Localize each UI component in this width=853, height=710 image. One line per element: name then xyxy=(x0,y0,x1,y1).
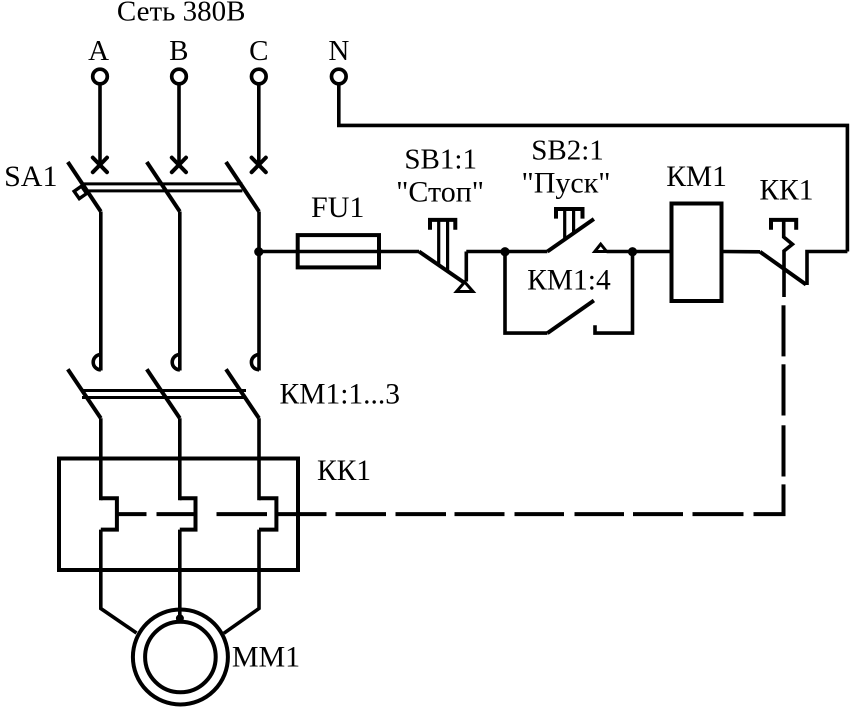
motor MM1 inner circle xyxy=(145,622,216,693)
svg-text:В: В xyxy=(169,35,188,67)
KM1:4 branch right wire xyxy=(595,252,633,334)
svg-text:SA1: SA1 xyxy=(4,160,57,193)
SA1 blade phase B xyxy=(147,162,180,212)
svg-text:A: A xyxy=(88,35,109,67)
node junction 2 xyxy=(628,247,637,256)
KM1:1 blade xyxy=(68,369,101,418)
wire B terminal to SA1 xyxy=(177,84,181,167)
wire SA1-A to KM1 contact xyxy=(99,212,103,371)
pushbutton SB1 actuator xyxy=(430,220,455,230)
SA1 fixed contact X phase A xyxy=(93,158,107,173)
terminal N xyxy=(332,69,347,84)
pushbutton SB1 blade (NC) xyxy=(419,252,465,284)
wire SA1-C to KM1 contact xyxy=(257,252,261,371)
SA1 blade phase A xyxy=(68,162,101,212)
fuse FU1 xyxy=(298,235,379,267)
mechanical link dashed (heaters to KK1 contact) xyxy=(117,305,784,514)
wire heater1 to motor xyxy=(101,530,137,633)
wire node1 to SB2 xyxy=(505,250,547,254)
wire through fuse to SB1 xyxy=(298,250,419,254)
node junction 1 xyxy=(500,247,509,256)
svg-text:КК1: КК1 xyxy=(759,175,813,207)
KK1 heater element 2 xyxy=(180,498,196,529)
svg-text:С: С xyxy=(249,35,268,67)
terminal A xyxy=(93,69,108,84)
KM1:4 blade (NO, open) xyxy=(547,301,594,334)
wire heater2 to motor xyxy=(178,530,182,618)
svg-text:N: N xyxy=(328,35,349,67)
KM1:1 fixed contact hook xyxy=(93,355,101,370)
pushbutton SB2 actuator xyxy=(556,209,583,219)
svg-text:Сеть 380В: Сеть 380В xyxy=(117,0,246,28)
KM1:4 branch left wire xyxy=(505,252,547,334)
SA1 linkage bar (double line) xyxy=(82,184,242,191)
SB2 fixed contact triangle xyxy=(595,244,607,251)
wire node2 to coil xyxy=(633,250,672,254)
SB1 right contact with return triangle xyxy=(464,252,468,282)
KM1:3 fixed contact hook xyxy=(251,355,259,370)
svg-text:FU1: FU1 xyxy=(311,191,364,224)
svg-text:"Стоп": "Стоп" xyxy=(396,176,484,209)
wire SA1-B to KM1 contact xyxy=(178,212,182,371)
svg-text:КМ1: КМ1 xyxy=(666,161,727,193)
wire coil to KK1 contact xyxy=(722,250,761,254)
terminal C xyxy=(251,69,266,84)
svg-text:ММ1: ММ1 xyxy=(232,641,300,674)
wire heater3 to motor xyxy=(224,530,259,634)
node control tap junction xyxy=(254,247,263,256)
KM1 contacts linkage bar (double line) xyxy=(82,391,246,398)
KM1:3 blade xyxy=(226,369,259,418)
svg-text:КМ1:1...3: КМ1:1...3 xyxy=(280,379,400,411)
KK1 heater element 3 xyxy=(259,498,276,529)
svg-text:КМ1:4: КМ1:4 xyxy=(527,265,611,297)
KK1 heater element 1 xyxy=(101,498,117,529)
KK1 contact actuator bracket xyxy=(771,220,796,230)
terminal B xyxy=(172,69,187,84)
SA1 handle square xyxy=(74,186,87,199)
wire SA1-C upper (to junction) xyxy=(257,212,261,252)
svg-text:SB1:1: SB1:1 xyxy=(404,144,477,176)
wire control line (tap to fuse) xyxy=(259,250,298,254)
KK1 blade (NC) xyxy=(760,252,806,285)
wire A terminal to SA1 xyxy=(98,84,102,167)
wire KM1:2 to heater xyxy=(178,418,182,500)
SA1 blade phase C xyxy=(226,162,259,212)
wire KM1:3 to heater xyxy=(257,418,261,500)
KM1:2 fixed contact hook xyxy=(172,355,180,370)
wire KM1:1 to heater xyxy=(99,418,103,500)
node motor terminal dot xyxy=(176,614,184,622)
KK1 thermal zigzag stem xyxy=(784,220,793,297)
motor MM1 outer circle xyxy=(133,610,228,705)
svg-text:SB2:1: SB2:1 xyxy=(531,135,604,167)
thermal relay KK1 box xyxy=(59,459,298,571)
contactor coil KM1 xyxy=(672,204,722,302)
pushbutton SB2 blade (NO, open) xyxy=(547,219,594,252)
wire SB2 to node2 xyxy=(607,250,633,254)
wire N terminal to top bus xyxy=(339,84,848,252)
wire SB1 to node1 xyxy=(466,250,505,254)
SA1 fixed contact X phase B xyxy=(172,158,186,173)
KK1 right contact stub xyxy=(807,252,847,286)
svg-text:КК1: КК1 xyxy=(317,455,371,487)
svg-text:"Пуск": "Пуск" xyxy=(521,167,610,200)
KM1:2 blade xyxy=(147,369,180,418)
SA1 fixed contact X phase C xyxy=(252,158,266,173)
wire C terminal to SA1 xyxy=(257,84,261,167)
